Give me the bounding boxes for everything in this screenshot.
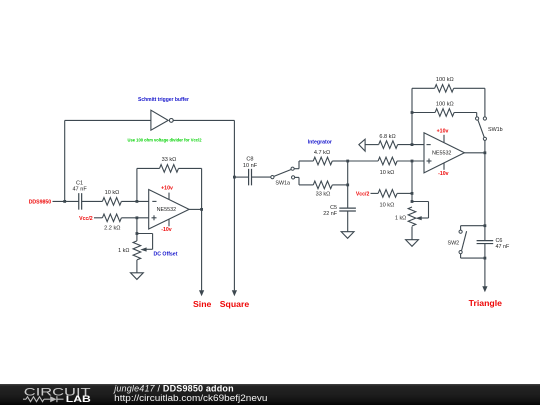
op-amp U1 V+ pin xyxy=(168,193,170,200)
label C6 xyxy=(496,238,503,244)
switch SW1b throw B xyxy=(483,117,486,120)
note green text xyxy=(128,138,202,143)
wire xyxy=(411,161,413,202)
node op2 noninverting junction xyxy=(411,160,414,163)
svg-text:NE5532: NE5532 xyxy=(157,207,176,213)
label 1 kOhm R5 xyxy=(395,216,406,222)
capacitor C6 xyxy=(477,241,494,244)
logo resistor-diode glyph xyxy=(23,396,64,402)
switch SW1b throw A xyxy=(476,117,479,120)
svg-text:C8: C8 xyxy=(246,157,253,163)
label DC Offset xyxy=(154,251,178,257)
label 10 kOhm op2 xyxy=(380,170,395,176)
label 33 kOhm integrator xyxy=(316,191,331,197)
wire xyxy=(201,209,203,290)
wire xyxy=(189,208,202,210)
wire xyxy=(121,217,148,219)
svg-text:10 kΩ: 10 kΩ xyxy=(105,190,120,196)
svg-text:Vcc/2: Vcc/2 xyxy=(79,216,93,222)
svg-text:33 kΩ: 33 kΩ xyxy=(316,191,331,197)
label 6.8 kOhm xyxy=(379,134,395,140)
node op2 inverting junction xyxy=(411,143,414,146)
node vcc2 junction xyxy=(411,192,414,195)
resistor 100k lower xyxy=(435,109,454,117)
wire xyxy=(371,192,379,194)
svg-text:10 nF: 10 nF xyxy=(243,163,258,169)
svg-text:http://circuitlab.com/ck69befj: http://circuitlab.com/ck69befj2nevu xyxy=(114,393,267,403)
wire xyxy=(295,177,314,185)
output arrow Square xyxy=(232,290,237,296)
op-amp U1 NE5532 xyxy=(149,190,189,230)
wire xyxy=(65,119,151,121)
svg-text:DDS9850: DDS9850 xyxy=(29,199,52,205)
svg-text:SW1a: SW1a xyxy=(275,181,290,187)
label -10v U1 xyxy=(161,227,171,233)
footer bar xyxy=(0,384,540,405)
wire xyxy=(53,200,79,202)
node C8 takeoff xyxy=(233,176,236,179)
svg-text:47 nF: 47 nF xyxy=(72,187,87,193)
net label Vcc/2 xyxy=(79,216,93,222)
resistor 33k feedback xyxy=(160,165,179,173)
label 47 nF C6 xyxy=(496,244,510,250)
switch SW2 lever xyxy=(462,231,467,250)
potentiometer R4 1k xyxy=(133,234,153,260)
resistor 33k integrator xyxy=(313,181,332,189)
label 10 nF xyxy=(243,163,258,169)
label 33 kOhm xyxy=(162,157,177,163)
wire xyxy=(484,140,486,152)
node SW2 takeoff xyxy=(484,224,487,227)
ground under C5 xyxy=(341,232,354,239)
svg-text:DC Offset: DC Offset xyxy=(154,251,178,257)
wire xyxy=(233,120,235,290)
node 100k lower left xyxy=(411,111,414,114)
node op1 inverting input xyxy=(136,200,139,203)
wire xyxy=(484,244,486,259)
wire xyxy=(173,119,234,121)
svg-text:100 kΩ: 100 kΩ xyxy=(436,101,454,107)
net label Triangle xyxy=(469,298,502,308)
op-amp U2 V+ pin xyxy=(443,135,445,143)
wire xyxy=(136,260,138,273)
wire xyxy=(82,200,103,202)
logo CIRCUIT text xyxy=(24,386,91,398)
ground under pot R5 xyxy=(406,240,419,247)
switch SW1b pole xyxy=(483,137,486,140)
label 100 kOhm upper xyxy=(436,77,454,83)
capacitor C1 xyxy=(79,193,82,210)
wire xyxy=(234,176,248,178)
port arrow to 6.8k xyxy=(359,139,365,151)
label 100 kOhm lower xyxy=(436,101,454,107)
label +10v U1 xyxy=(161,186,173,192)
wire xyxy=(397,160,424,162)
svg-text:+10v: +10v xyxy=(161,186,173,192)
svg-text:C1: C1 xyxy=(76,180,83,186)
wire xyxy=(94,217,102,219)
label 1 kOhm R4 xyxy=(118,248,129,254)
wire xyxy=(201,168,203,209)
svg-text:4.7 kΩ: 4.7 kΩ xyxy=(314,150,330,156)
wire xyxy=(461,254,485,258)
wire xyxy=(454,88,485,117)
label Integrator xyxy=(308,139,332,145)
output arrow Sine xyxy=(199,290,204,296)
svg-text:LAB: LAB xyxy=(66,394,92,404)
label C8 xyxy=(246,157,253,163)
wire xyxy=(252,176,271,178)
resistor 10k vcc2 xyxy=(378,190,397,198)
wire xyxy=(64,120,66,201)
svg-text:SW2: SW2 xyxy=(448,241,460,247)
output arrow Triangle xyxy=(482,286,487,292)
resistor 2.2k xyxy=(102,214,121,222)
wire xyxy=(137,167,160,169)
svg-text:10 kΩ: 10 kΩ xyxy=(380,170,395,176)
svg-text:C6: C6 xyxy=(496,238,503,244)
wire xyxy=(484,258,486,287)
wire xyxy=(397,192,412,194)
wire xyxy=(121,200,148,202)
svg-text:-10v: -10v xyxy=(438,171,448,177)
label SW2 xyxy=(448,241,460,247)
svg-text:-10v: -10v xyxy=(161,227,171,233)
op-amp U1 V- pin xyxy=(168,219,170,226)
wire xyxy=(347,161,349,208)
svg-text:1 kΩ: 1 kΩ xyxy=(395,216,406,222)
label SW1b xyxy=(488,127,503,133)
svg-text:10 kΩ: 10 kΩ xyxy=(380,202,395,208)
resistor 100k upper xyxy=(435,85,454,93)
wire xyxy=(454,113,477,117)
ground under pot R4 xyxy=(131,273,144,280)
svg-text:22 nF: 22 nF xyxy=(323,211,337,217)
wire xyxy=(411,227,413,240)
label +10v U2 xyxy=(437,129,449,135)
label 47 nF xyxy=(72,187,87,193)
switch SW2 contact top xyxy=(459,230,462,233)
svg-text:Schmitt trigger buffer: Schmitt trigger buffer xyxy=(138,97,189,103)
svg-text:6.8 kΩ: 6.8 kΩ xyxy=(379,134,395,140)
label 2.2 kOhm xyxy=(104,226,120,232)
label SW1a xyxy=(275,181,290,187)
node op1 noninverting input xyxy=(136,216,139,219)
net label Vcc/2 right xyxy=(356,191,370,197)
label 22 nF xyxy=(323,211,337,217)
node integrator sum top xyxy=(346,160,349,163)
wire xyxy=(412,87,435,89)
svg-text:1 kΩ: 1 kΩ xyxy=(118,248,129,254)
capacitor C8 xyxy=(249,169,252,186)
node pot R4 top junction xyxy=(136,232,139,235)
wire xyxy=(136,218,138,241)
wire xyxy=(179,167,202,169)
logo LAB text xyxy=(66,394,92,404)
net label Square xyxy=(220,299,250,309)
footer title line xyxy=(113,384,234,394)
label 10 kOhm xyxy=(105,190,120,196)
resistor 10k input xyxy=(102,198,121,206)
buffer U3 schmitt trigger triangle xyxy=(151,110,173,130)
svg-text:+10v: +10v xyxy=(437,129,449,135)
label -10v U2 xyxy=(438,171,448,177)
svg-text:Use 100 ohm voltage divider fo: Use 100 ohm voltage divider for Vcc/2 xyxy=(128,138,202,143)
wire xyxy=(348,160,378,162)
wire xyxy=(332,160,347,162)
svg-text:Sine: Sine xyxy=(193,299,212,309)
switch SW1b lever xyxy=(478,120,484,137)
svg-text:33 kΩ: 33 kΩ xyxy=(162,157,177,163)
svg-text:NE5532: NE5532 xyxy=(432,151,451,157)
resistor 6.8k xyxy=(379,141,398,149)
node op1 output xyxy=(200,208,203,211)
node integrator sum bottom xyxy=(346,184,349,187)
node op2 output xyxy=(484,151,487,154)
wire xyxy=(412,112,435,114)
wire xyxy=(411,88,413,144)
resistor 10k to op2 xyxy=(378,157,397,165)
wire xyxy=(136,168,138,201)
net label DDS9850 xyxy=(29,199,52,205)
label 10 kOhm vcc2 xyxy=(380,202,395,208)
switch SW1a throw A xyxy=(291,167,294,170)
label Schmitt trigger buffer xyxy=(138,97,189,103)
capacitor C5 xyxy=(339,208,356,211)
svg-text:Integrator: Integrator xyxy=(308,139,332,145)
svg-text:Vcc/2: Vcc/2 xyxy=(356,191,370,197)
op-amp U2 V- pin xyxy=(443,163,445,170)
label 4.7 kOhm xyxy=(314,150,330,156)
wire xyxy=(398,144,424,146)
wire xyxy=(484,153,486,241)
wire xyxy=(347,211,349,231)
label C5 xyxy=(330,205,337,211)
label C1 xyxy=(76,180,83,186)
svg-text:47 nF: 47 nF xyxy=(496,244,510,250)
svg-text:2.2 kΩ: 2.2 kΩ xyxy=(104,226,120,232)
label NE5532 U1 xyxy=(157,207,176,213)
wire xyxy=(464,152,485,154)
wire xyxy=(365,144,379,146)
switch SW1a throw B xyxy=(292,176,295,179)
svg-text:Square: Square xyxy=(220,299,250,309)
footer url line xyxy=(114,393,267,403)
wire xyxy=(332,184,347,186)
svg-text:SW1b: SW1b xyxy=(488,127,503,133)
node C6 bottom junction xyxy=(484,257,487,260)
switch SW1a lever xyxy=(274,170,291,177)
resistor 4.7k xyxy=(313,157,332,165)
label NE5532 U2 xyxy=(432,151,451,157)
node junction at buffer takeoff xyxy=(63,200,66,203)
switch SW2 contact bottom xyxy=(459,251,462,254)
wire xyxy=(461,226,485,230)
switch SW1a pole xyxy=(271,176,274,179)
node pot R5 top junction xyxy=(411,200,414,203)
net label Sine xyxy=(193,299,212,309)
wire xyxy=(294,161,313,169)
svg-text:100 kΩ: 100 kΩ xyxy=(436,77,454,83)
svg-text:Triangle: Triangle xyxy=(469,298,502,308)
op-amp U2 NE5532 xyxy=(424,133,464,173)
potentiometer R5 1k xyxy=(408,202,428,227)
